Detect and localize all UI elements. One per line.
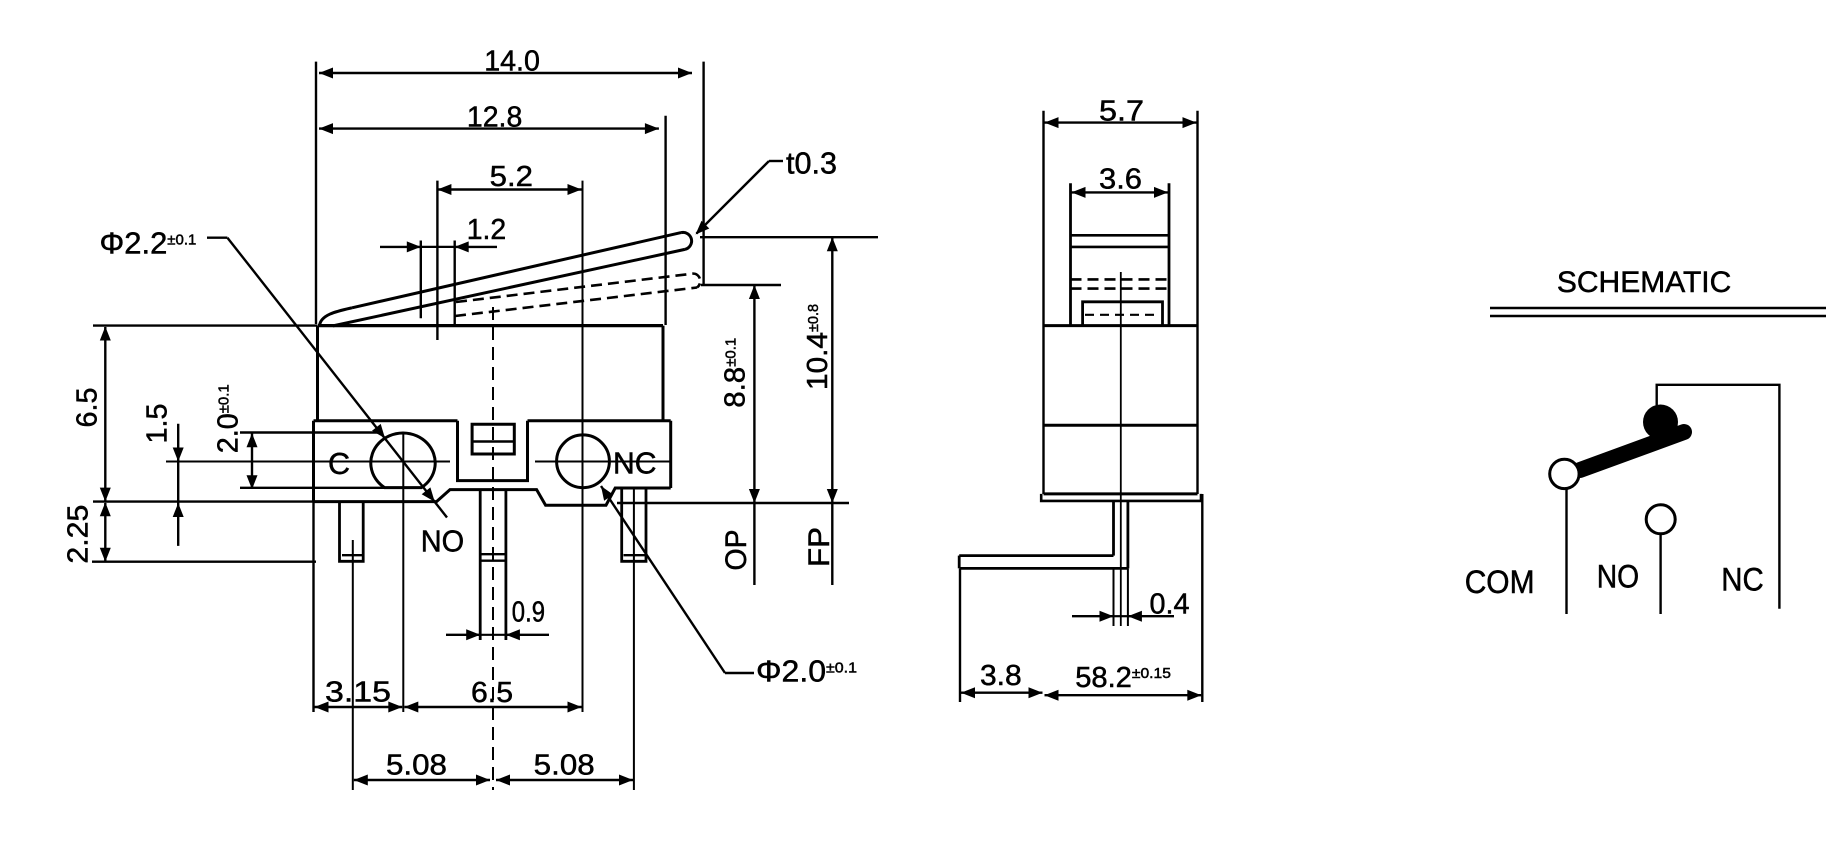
terminal pin NO (center)	[479, 490, 482, 640]
extension line body top (6.5 ref)	[93, 324, 318, 326]
extension line 2.0 top ref	[240, 431, 381, 433]
leader Phi2.0 to hole NC	[601, 486, 725, 673]
svg-text:C: C	[328, 447, 350, 481]
dimension 10.4 FP	[831, 238, 833, 585]
extension line hole NC center / 5.2 right	[582, 181, 584, 712]
COM contact circle	[1550, 459, 1579, 488]
terminal pin C (left)	[340, 502, 364, 562]
front view: switch body outline	[318, 324, 663, 327]
lever (side)	[1069, 183, 1072, 326]
svg-text:COM: COM	[1465, 564, 1535, 600]
extension line pressed tip (8.8 top ref)	[701, 284, 781, 286]
movable contact bar	[1580, 432, 1684, 470]
dimension 2.25	[104, 503, 106, 561]
svg-text:3.8: 3.8	[980, 660, 1022, 692]
leader t0.3	[769, 160, 783, 162]
lever pressed (dashed, side)	[1071, 278, 1170, 281]
dimension 12.8	[664, 116, 666, 325]
svg-text:1.2: 1.2	[467, 214, 507, 246]
svg-text:SCHEMATIC: SCHEMATIC	[1557, 266, 1731, 299]
side view body	[1042, 111, 1044, 494]
svg-text:NO: NO	[421, 524, 464, 558]
extension line left pin center (5.08)	[352, 540, 354, 790]
svg-text:OP: OP	[720, 530, 753, 571]
svg-text:0.4: 0.4	[1150, 589, 1190, 621]
dimension 5.2	[436, 181, 438, 340]
svg-text:NO: NO	[1597, 559, 1639, 595]
svg-text:12.8: 12.8	[467, 101, 522, 133]
svg-text:FP: FP	[803, 527, 836, 567]
svg-text:NC: NC	[613, 447, 657, 481]
svg-text:2.25: 2.25	[63, 505, 95, 564]
body bottom profile	[314, 488, 671, 505]
dimension 3.15	[312, 502, 314, 712]
dimension 3.8	[959, 569, 961, 702]
svg-text:0.9: 0.9	[512, 596, 545, 628]
svg-text:5.08: 5.08	[534, 750, 595, 782]
terminal pin bent (side)	[1112, 501, 1115, 556]
extension line terminal bottom (2.25 ref)	[92, 561, 316, 563]
lever arm (free position)	[352, 233, 681, 308]
terminal pin NC (right)	[622, 488, 646, 561]
svg-text:1.5: 1.5	[142, 404, 174, 444]
plunger button	[472, 424, 514, 454]
title underline 1	[1490, 307, 1826, 310]
terminal hole NC (right)	[557, 435, 610, 488]
lever arm pressed position (dashed)	[456, 274, 694, 303]
svg-text:3.15: 3.15	[325, 677, 391, 709]
dimension 14.0	[315, 62, 317, 324]
dimension 58.2	[1201, 494, 1203, 702]
svg-text:6.5: 6.5	[471, 677, 513, 709]
dimension 5.08 left	[354, 779, 490, 781]
svg-text:NC: NC	[1721, 562, 1763, 598]
extension line lever tip (10.4 top ref)	[700, 236, 878, 238]
terminal hole C (left)	[371, 433, 435, 488]
plunger notch	[458, 421, 528, 481]
dimension 6.5 (height)	[104, 327, 106, 501]
wire COM pivot to NC terminal	[1657, 385, 1780, 609]
vertical centerline plunger axis	[492, 307, 494, 790]
plunger pocket	[1083, 302, 1163, 326]
dimension 2.0	[251, 433, 253, 489]
extension line 2.0 bottom ref	[240, 487, 392, 489]
leader Phi2.2 to hole C and NO corner	[207, 236, 227, 238]
dimension 8.8 OP	[753, 286, 755, 585]
title underline 2	[1490, 315, 1826, 318]
dimension 1.2	[420, 241, 422, 319]
wire NO lead	[1659, 534, 1661, 614]
extension line pin (0.4)	[1113, 568, 1115, 626]
extension line body bottom (6.5/2.25 ref)	[93, 500, 314, 502]
svg-text:5.08: 5.08	[386, 750, 447, 782]
wire COM lead	[1565, 489, 1567, 614]
NO contact circle	[1646, 505, 1675, 534]
centerline through hole C	[166, 461, 450, 463]
svg-text:3.6: 3.6	[1099, 164, 1142, 196]
svg-text:t0.3: t0.3	[786, 146, 837, 181]
base plate	[1041, 494, 1201, 501]
extension line seating plane (OP/FP ref)	[617, 502, 849, 504]
dimension 0.4	[1072, 615, 1114, 617]
dimension 5.7	[1045, 121, 1197, 123]
dimension 6.5 (pin span)	[404, 706, 581, 708]
dimension 0.9	[446, 634, 480, 636]
centerline side view	[1120, 272, 1122, 626]
NC contact dot	[1643, 405, 1678, 440]
svg-text:5.7: 5.7	[1099, 96, 1144, 128]
extension line right pin center (5.08)	[633, 489, 635, 790]
svg-text:6.5: 6.5	[72, 388, 104, 428]
dimension 5.08 right	[496, 779, 633, 781]
dimension 1.5	[177, 424, 179, 546]
dimension 3.6	[1072, 191, 1169, 193]
centerline through hole NC	[535, 461, 671, 463]
svg-text:14.0: 14.0	[484, 45, 540, 77]
extension line hole C center	[402, 433, 404, 712]
svg-text:5.2: 5.2	[490, 161, 533, 193]
